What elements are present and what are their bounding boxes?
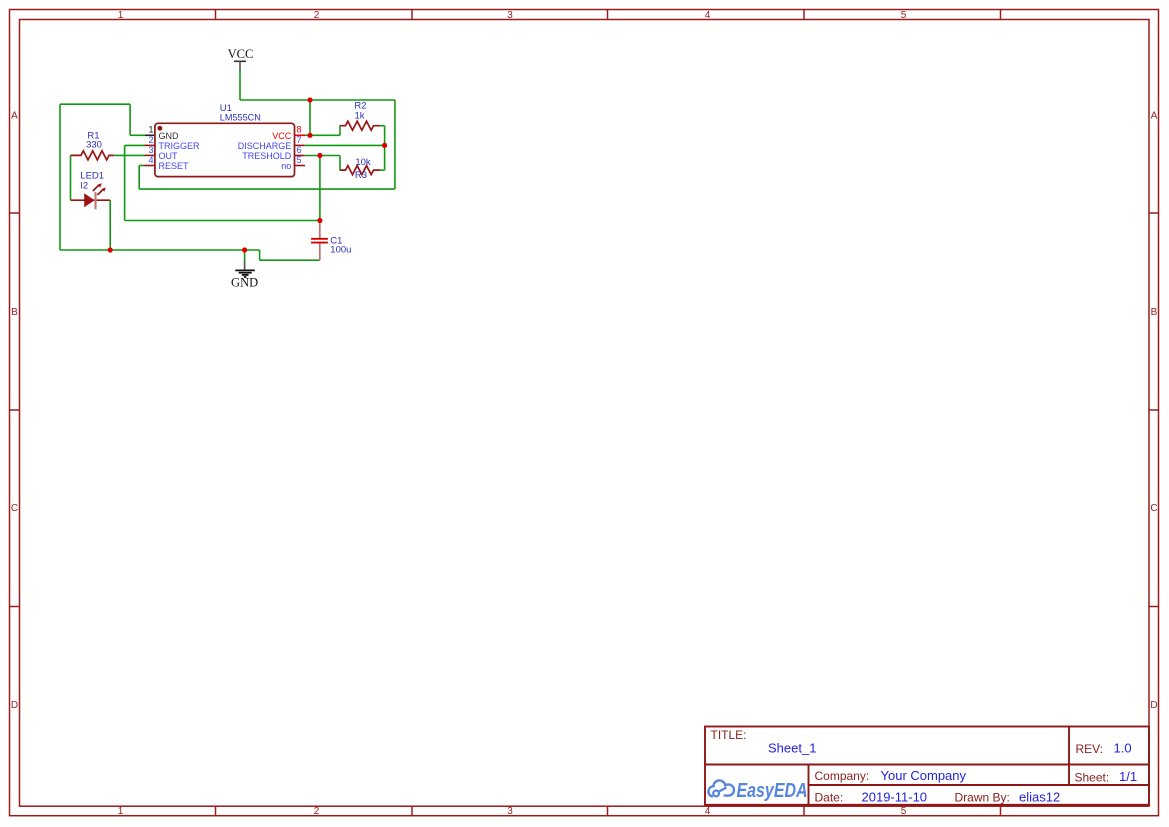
wire R2-R3 right vertical xyxy=(384,126,386,170)
wire pin6 threshold xyxy=(305,155,340,157)
svg-text:2: 2 xyxy=(314,10,320,21)
svg-text:REV:: REV: xyxy=(1076,742,1104,756)
diode LED1 xyxy=(71,171,111,210)
svg-text:6: 6 xyxy=(297,145,302,155)
resistor R3 xyxy=(340,157,380,181)
row labels right xyxy=(1150,111,1157,712)
svg-text:A: A xyxy=(11,111,18,122)
junction pin8 VCC xyxy=(307,133,312,138)
wire R3 right xyxy=(380,169,385,171)
capacitor C1 xyxy=(311,221,351,260)
svg-text:C: C xyxy=(1150,503,1157,514)
wire top left horizontal xyxy=(60,103,130,105)
wire bottom rail xyxy=(60,249,260,251)
wire reset vertical xyxy=(138,166,140,190)
junction LED cathode to GND bus xyxy=(108,247,113,252)
title block xyxy=(705,727,1149,805)
svg-text:B: B xyxy=(1151,307,1158,318)
svg-text:Sheet:: Sheet: xyxy=(1075,771,1110,785)
wire pin8 to R2 xyxy=(305,134,340,136)
svg-text:10k: 10k xyxy=(355,157,371,168)
power flag VCC xyxy=(228,47,254,71)
wire pin1 green xyxy=(130,134,145,136)
svg-text:D: D xyxy=(11,700,18,711)
svg-text:1: 1 xyxy=(148,125,153,135)
row labels left xyxy=(11,111,18,712)
svg-text:4: 4 xyxy=(705,10,711,21)
wire pin7 discharge xyxy=(305,144,385,146)
wire right rail vertical xyxy=(394,100,396,189)
wire bottom step down xyxy=(259,250,261,260)
LED1 emission arrow 2 xyxy=(97,190,102,195)
pin1 polarity dot xyxy=(158,126,163,131)
wire down to R3 left xyxy=(339,156,341,171)
svg-text:3: 3 xyxy=(507,10,513,21)
svg-text:3: 3 xyxy=(507,806,513,817)
svg-text:1: 1 xyxy=(118,10,124,21)
svg-text:VCC: VCC xyxy=(228,47,254,61)
svg-text:Your Company: Your Company xyxy=(881,768,967,783)
resistor R1 xyxy=(71,131,114,160)
LED1 anode triangle xyxy=(84,193,94,207)
column labels bottom xyxy=(118,806,907,817)
svg-text:GND: GND xyxy=(231,275,258,289)
svg-text:5: 5 xyxy=(901,10,907,21)
svg-text:RESET: RESET xyxy=(159,161,190,171)
junction discharge R2-R3 xyxy=(382,143,387,148)
svg-text:4: 4 xyxy=(148,155,153,165)
wire VCC vertical xyxy=(239,70,241,100)
svg-text:2019-11-10: 2019-11-10 xyxy=(862,790,928,805)
svg-text:C: C xyxy=(11,503,18,514)
svg-text:2: 2 xyxy=(148,135,153,145)
wire up to R2 left xyxy=(339,126,341,136)
svg-text:2: 2 xyxy=(314,806,320,817)
EasyEDA logo xyxy=(708,778,807,801)
frame column ticks bottom xyxy=(216,806,1001,816)
svg-text:DISCHARGE: DISCHARGE xyxy=(238,141,292,151)
svg-text:Drawn By:: Drawn By: xyxy=(955,791,1010,805)
svg-text:Date:: Date: xyxy=(815,791,844,805)
svg-text:VCC: VCC xyxy=(272,131,292,141)
svg-text:1.0: 1.0 xyxy=(1114,741,1132,756)
svg-text:TITLE:: TITLE: xyxy=(711,728,747,742)
pin stub 8 VCC xyxy=(295,134,306,136)
ground GND xyxy=(231,261,258,290)
frame row ticks right xyxy=(1149,213,1159,607)
svg-text:TRESHOLD: TRESHOLD xyxy=(242,151,292,161)
pin stub 1 xyxy=(145,134,155,136)
junction trigger-threshold C1 top xyxy=(317,218,322,223)
svg-text:8: 8 xyxy=(297,125,302,135)
wire R1 left down to LED xyxy=(70,155,72,200)
wire gnd stub xyxy=(244,250,246,261)
svg-text:4: 4 xyxy=(705,806,711,817)
wire cap top to trigger horizontal xyxy=(125,220,320,222)
pin stub 6 xyxy=(295,155,305,157)
wire R2 right xyxy=(380,125,385,127)
svg-text:A: A xyxy=(1151,111,1158,122)
pin stub 2 xyxy=(145,144,156,146)
wire left rail vertical xyxy=(59,104,61,250)
wire bottom to cap xyxy=(260,259,320,261)
wire threshold down to cap xyxy=(319,156,321,221)
svg-text:OUT: OUT xyxy=(159,151,179,161)
pin stub 4 xyxy=(145,165,156,167)
svg-text:1k: 1k xyxy=(354,111,364,122)
svg-text:B: B xyxy=(11,307,18,318)
svg-text:Sheet_1: Sheet_1 xyxy=(768,741,816,756)
svg-text:LM555CN: LM555CN xyxy=(220,113,261,124)
svg-text:Company:: Company: xyxy=(815,769,870,783)
resistor R2 xyxy=(340,101,380,131)
wire top rail horizontal xyxy=(240,99,395,101)
wire reset to pin4 xyxy=(139,165,144,167)
svg-text:1: 1 xyxy=(118,806,124,817)
wire bottom of reset rail xyxy=(139,188,395,190)
frame row ticks left xyxy=(10,213,20,607)
wire vcc drop to pin8 xyxy=(309,100,311,135)
op-amp U1 LM555CN body xyxy=(155,103,295,177)
junction VCC rail top xyxy=(307,97,312,102)
wire LED cathode down xyxy=(109,200,111,250)
svg-text:D: D xyxy=(1150,700,1157,711)
LED1 cathode bar xyxy=(94,192,96,209)
svg-text:5: 5 xyxy=(297,155,302,165)
svg-text:I2: I2 xyxy=(80,181,88,192)
pin stub 7 xyxy=(295,144,305,146)
svg-text:5: 5 xyxy=(901,806,907,817)
svg-text:no: no xyxy=(281,161,291,171)
svg-text:elias12: elias12 xyxy=(1019,790,1060,805)
svg-text:TRIGGER: TRIGGER xyxy=(159,141,201,151)
wire trigger vertical xyxy=(124,145,126,220)
wire R1 right to pin3 xyxy=(114,154,145,156)
svg-text:3: 3 xyxy=(148,145,153,155)
svg-text:100u: 100u xyxy=(330,245,351,256)
svg-text:GND: GND xyxy=(159,131,180,141)
junction threshold pin6 xyxy=(317,153,322,158)
title block texts xyxy=(711,728,1138,805)
LED1 emission arrow 1 xyxy=(93,185,99,191)
svg-text:7: 7 xyxy=(297,135,302,145)
column labels top xyxy=(118,10,907,21)
svg-text:330: 330 xyxy=(86,139,102,150)
wire pin1 vertical xyxy=(129,104,131,135)
junction GND bus xyxy=(242,247,247,252)
pin stub 3 xyxy=(145,154,156,156)
svg-text:R3: R3 xyxy=(355,170,367,181)
svg-text:EasyEDA: EasyEDA xyxy=(737,778,808,801)
wire trigger to pin2 xyxy=(125,144,145,146)
svg-text:1/1: 1/1 xyxy=(1119,769,1137,784)
frame column ticks top xyxy=(216,10,1001,20)
pin stub 5 xyxy=(295,165,306,167)
